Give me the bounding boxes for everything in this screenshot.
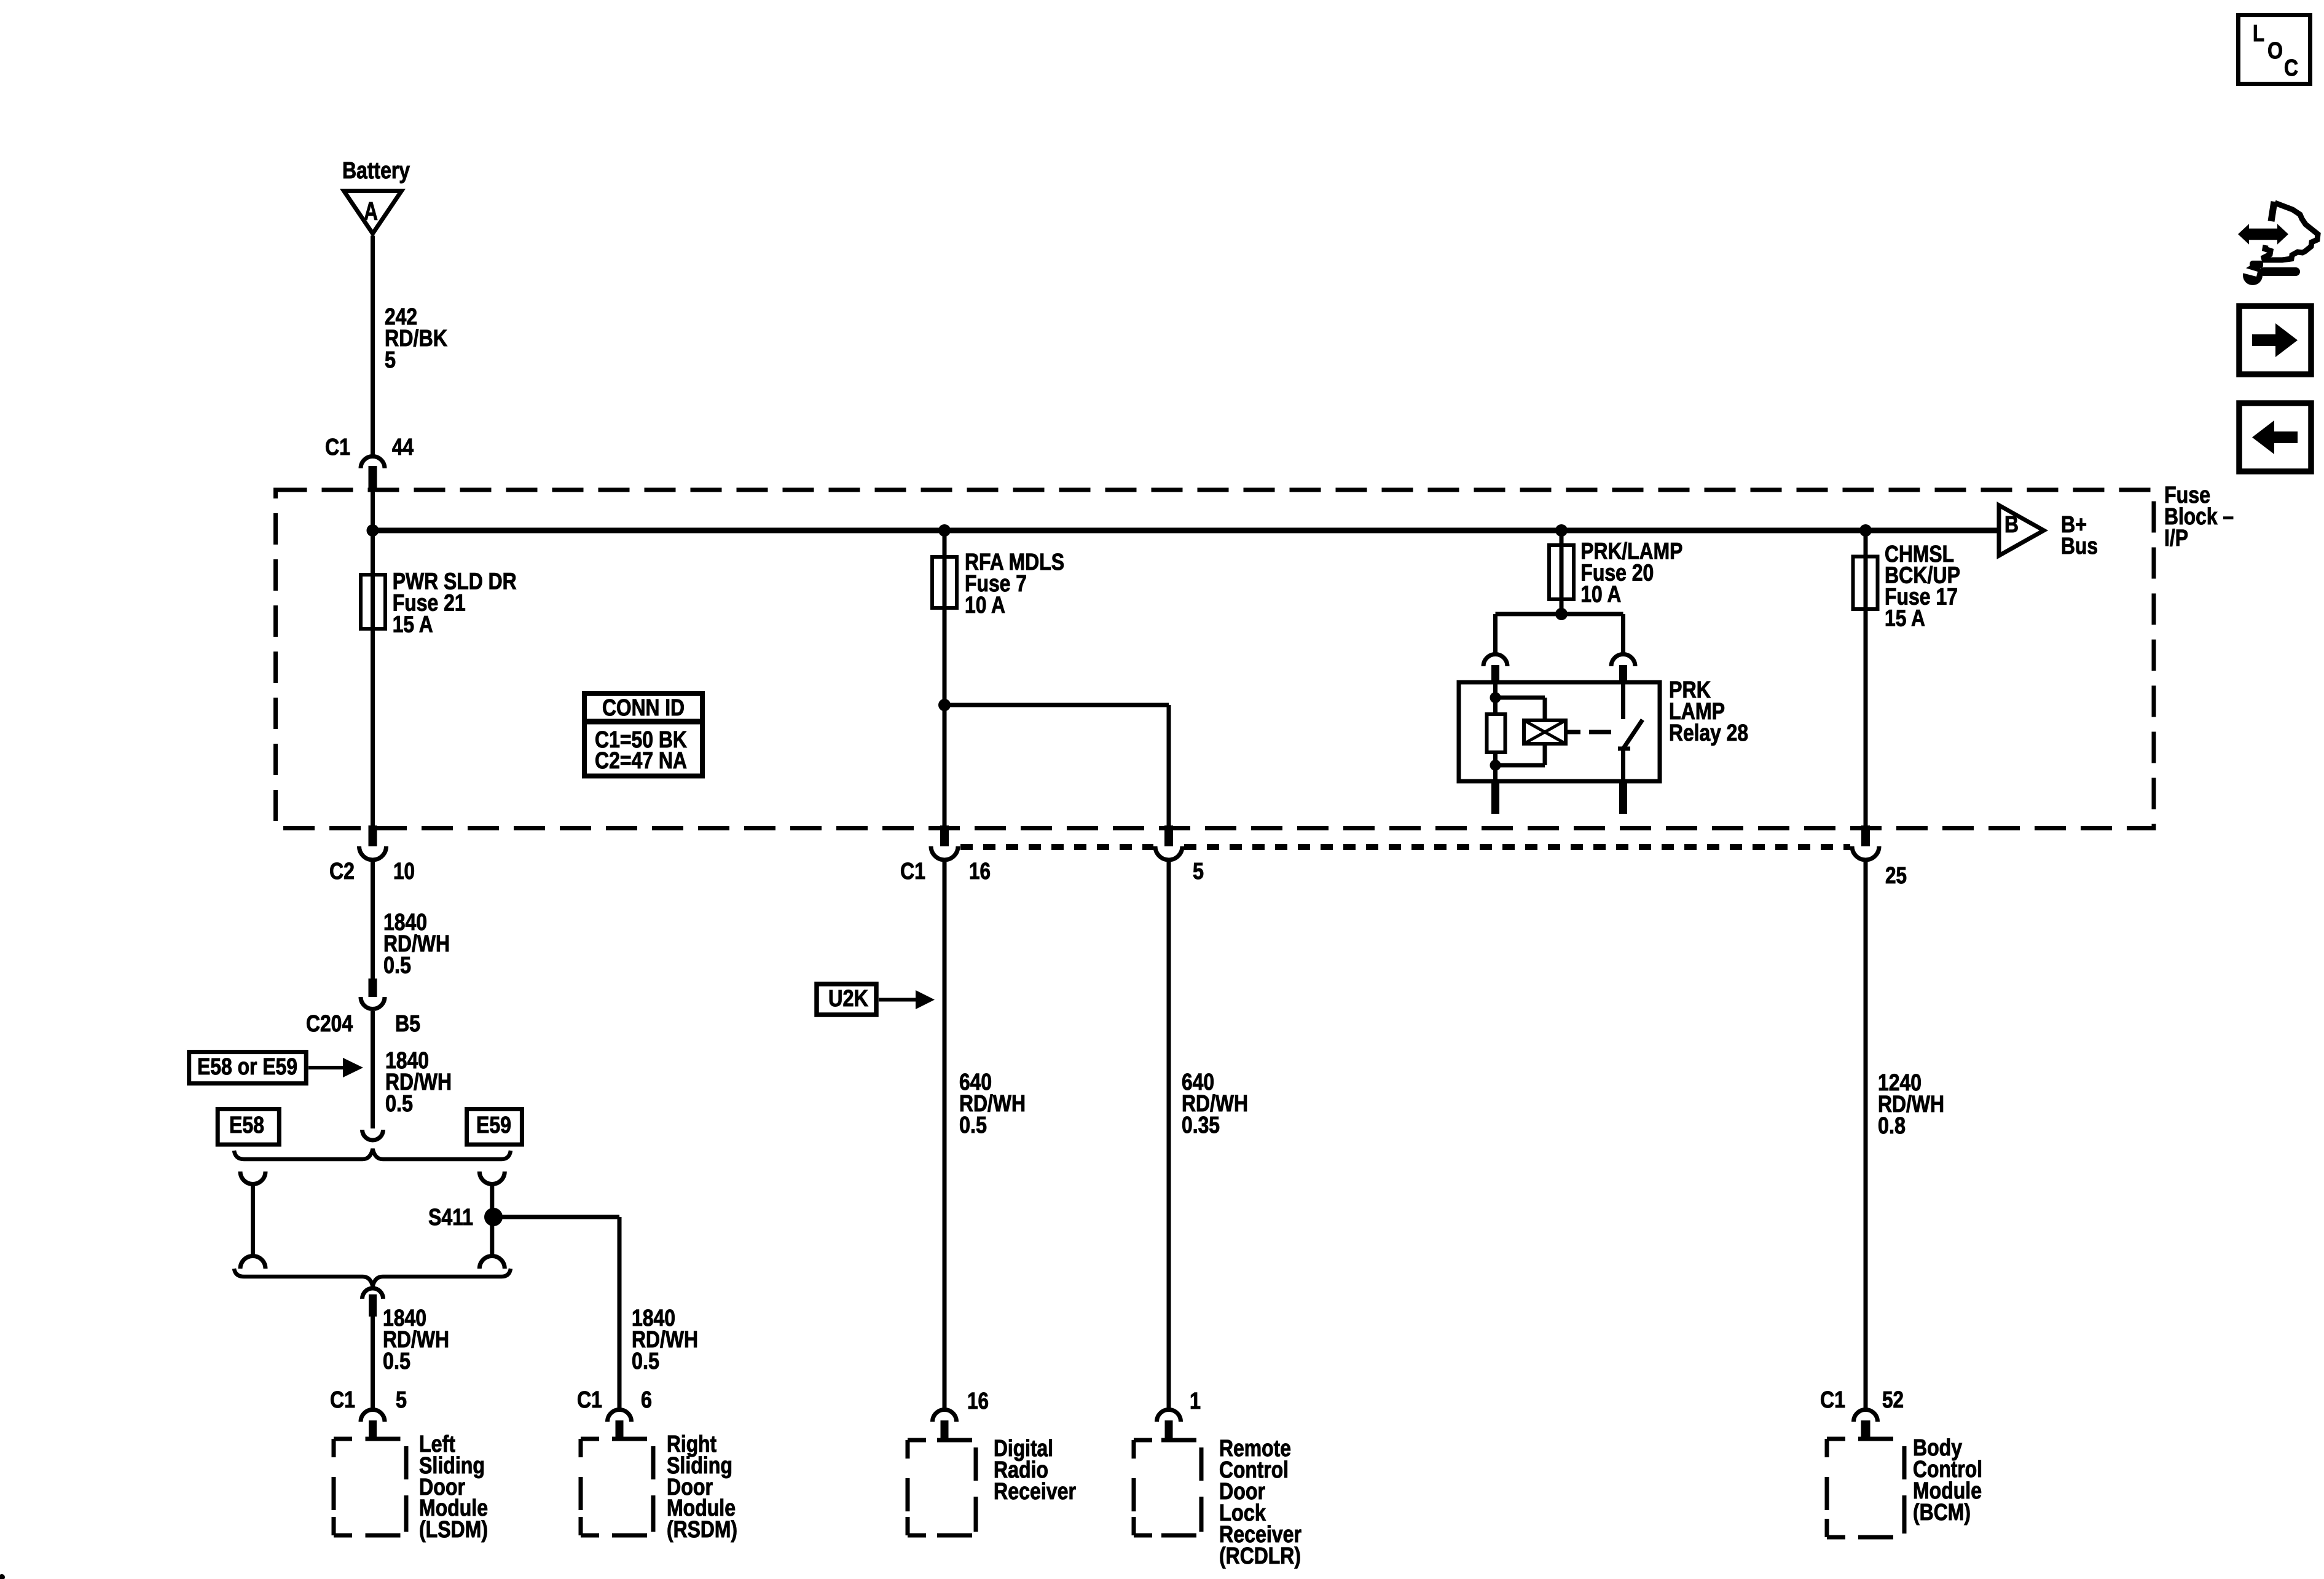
svg-text:E58: E58	[229, 1112, 264, 1138]
callout arrow E58 or E59	[308, 1058, 363, 1077]
junction node at fuse 17	[1859, 524, 1872, 537]
svg-text:C1: C1	[900, 859, 925, 884]
svg-text:I/P: I/P	[2164, 526, 2188, 551]
wire label 640 RD/WH 0.35	[1182, 1069, 1248, 1138]
brace bottom	[234, 1269, 511, 1286]
connector C1 pin 16	[931, 825, 958, 860]
fuse 7 label	[965, 549, 1064, 618]
wire label 1240 RD/WH 0.8	[1878, 1070, 1944, 1139]
svg-text:0.5: 0.5	[383, 1349, 410, 1374]
connector C1 pin 5	[1155, 825, 1182, 860]
wire bus to fuse 7 to C1-16	[943, 530, 947, 825]
wire S411 to RSDM	[493, 1217, 619, 1408]
relay coil output pin	[1491, 781, 1499, 814]
relay linkage dashes	[1566, 730, 1611, 734]
junction node below fuse 20	[1555, 608, 1568, 620]
wire label 640 RD/WH 0.5	[959, 1069, 1026, 1138]
module DRR label	[994, 1436, 1076, 1505]
connector C204 labels	[306, 1011, 420, 1037]
wire label 1840 RD/WH 0.5 (RSDM)	[632, 1305, 698, 1374]
connector C1 pin 44 labels	[325, 435, 414, 460]
relay label PRK LAMP Relay 28	[1669, 677, 1748, 746]
svg-text:25: 25	[1885, 863, 1907, 889]
repair icon wrench	[2242, 261, 2300, 285]
svg-text:B: B	[2004, 512, 2019, 538]
svg-text:C1: C1	[1820, 1387, 1845, 1413]
svg-text:52: 52	[1882, 1387, 1904, 1413]
wire bus to fuse 17 to pin 25	[1864, 530, 1868, 825]
wire pin 5 to RCDLR	[1167, 860, 1171, 1408]
connector C2 pin 10 labels	[329, 859, 415, 884]
wire brace to LSDM	[371, 1317, 375, 1408]
svg-text:(BCM): (BCM)	[1913, 1500, 1971, 1526]
svg-text:Battery: Battery	[342, 158, 410, 184]
navigation icon arrow right	[2239, 306, 2311, 374]
callout arrow U2K	[879, 990, 935, 1009]
svg-text:1: 1	[1190, 1388, 1201, 1414]
connector C1 pin 6 at RSDM	[608, 1410, 632, 1439]
wire C204 to splice brace	[371, 1011, 375, 1128]
svg-text:B5: B5	[395, 1011, 420, 1037]
svg-text:Relay 28: Relay 28	[1669, 720, 1748, 746]
svg-text:5: 5	[1193, 859, 1204, 884]
svg-text:16: 16	[969, 859, 991, 884]
relay K28 box	[1459, 682, 1660, 781]
relay coil feed wire	[1493, 683, 1498, 714]
svg-text:E59: E59	[476, 1112, 511, 1138]
svg-text:10: 10	[393, 859, 415, 884]
wire C2-10 to C204	[371, 860, 375, 979]
relay switch output pin	[1619, 781, 1627, 814]
svg-text:5: 5	[396, 1387, 407, 1413]
wire bus to fuse 21 to C2-10	[371, 490, 375, 825]
svg-text:E58 or E59: E58 or E59	[197, 1054, 297, 1080]
connector pin 16 at DRR	[933, 1410, 957, 1439]
wire pin 25 to BCM	[1864, 860, 1868, 1408]
connector C1 pin 25 label	[1885, 863, 1907, 889]
connector C1 pin 16 labels	[900, 859, 991, 884]
B+ Bus label	[2061, 512, 2098, 559]
relay switch contact wire	[1621, 683, 1625, 719]
B+ bus wire	[373, 528, 2000, 534]
pigtail connector below brace	[363, 1288, 383, 1317]
wire label 1840 RD/WH 0.5 (LSDM)	[383, 1305, 449, 1374]
fuse F20 PRK/LAMP	[1549, 545, 1574, 599]
module BCM label	[1913, 1435, 1982, 1526]
connector C1 pin 5 labels at LSDM	[330, 1387, 407, 1413]
svg-text:U2K: U2K	[828, 986, 868, 1012]
pigtail connector above brace	[363, 1130, 383, 1140]
svg-text:16: 16	[967, 1388, 989, 1414]
svg-text:10 A: 10 A	[1580, 581, 1621, 607]
navigation icon arrow left	[2239, 403, 2311, 471]
junction node branch to pin 5	[938, 699, 951, 711]
connector C1 pin 5 at LSDM	[361, 1410, 385, 1439]
svg-text:6: 6	[641, 1387, 652, 1413]
wire label 1840 RD/WH 0.5 (lower)	[385, 1048, 452, 1117]
fuse block label Fuse Block - I/P	[2164, 482, 2234, 551]
connector C1 pin 25	[1852, 825, 1879, 860]
svg-text:0.8: 0.8	[1878, 1113, 1906, 1139]
wire branch to pin 5	[944, 705, 1169, 825]
svg-text:C1: C1	[577, 1387, 602, 1413]
svg-text:44: 44	[392, 435, 414, 460]
svg-text:CONN ID: CONN ID	[602, 695, 685, 721]
splice S411 node	[484, 1208, 503, 1226]
CONN ID table box	[584, 693, 702, 776]
connector C1 pin 5 label	[1193, 859, 1204, 884]
junction node at fuse 7	[938, 524, 951, 537]
svg-text:C2=47 NA: C2=47 NA	[595, 748, 687, 774]
fuse 21 label	[393, 569, 517, 637]
module BCM box	[1827, 1439, 1904, 1537]
connector C204 pin B5	[361, 979, 385, 1009]
svg-text:C204: C204	[306, 1011, 353, 1037]
connector C1 dotted line	[960, 844, 1850, 850]
svg-text:(RSDM): (RSDM)	[667, 1517, 737, 1543]
wire battery to C1-44	[371, 236, 375, 459]
connector box E58	[218, 1109, 279, 1145]
svg-text:0.5: 0.5	[383, 953, 411, 979]
module DRR box	[908, 1440, 976, 1535]
LOC legend box	[2239, 15, 2310, 84]
connector C1 pin 52 labels at BCM	[1820, 1387, 1904, 1413]
connector C1-44	[361, 457, 385, 490]
svg-text:Bus: Bus	[2061, 534, 2098, 559]
splice S411 label	[428, 1205, 473, 1231]
wire fuse 20 to relay coil pin	[1496, 614, 1562, 653]
svg-text:0.5: 0.5	[632, 1349, 659, 1374]
junction node at fuse 21	[367, 524, 379, 537]
callout box U2K	[817, 984, 876, 1015]
connector box E59	[467, 1109, 522, 1145]
page corner mark	[0, 1574, 5, 1579]
wire label 242 RD/BK 5	[385, 304, 447, 373]
svg-text:(RCDLR): (RCDLR)	[1219, 1543, 1301, 1569]
svg-text:15 A: 15 A	[393, 612, 433, 637]
svg-text:C2: C2	[329, 859, 355, 884]
fuse F17 CHMSL BCK/UP	[1853, 557, 1878, 610]
wire C1-16 to DRR	[943, 860, 947, 1408]
power symbol B (B+ bus arrow)	[1999, 505, 2044, 556]
fuse F21 PWR SLD DR	[361, 575, 385, 629]
connector C1 pin 6 labels at RSDM	[577, 1387, 652, 1413]
wire fuse 20 to relay switch pin	[1561, 614, 1623, 653]
module RCDLR box	[1134, 1440, 1201, 1535]
CONN ID header	[602, 695, 685, 721]
connector pin 16 label at DRR	[967, 1388, 989, 1414]
svg-text:15 A: 15 A	[1885, 606, 1925, 632]
junction node at fuse 20	[1555, 524, 1568, 537]
connector C2 pin 10	[359, 825, 387, 860]
svg-text:C1: C1	[325, 435, 350, 460]
wire bus to fuse 20	[1560, 530, 1564, 614]
splice bus E59 side	[479, 1171, 504, 1269]
module LSDM label	[419, 1431, 488, 1543]
svg-text:C1: C1	[330, 1387, 355, 1413]
splice bus E58 side	[240, 1171, 265, 1269]
CONN ID entries	[595, 727, 687, 774]
relay resistor bottom wire	[1493, 752, 1498, 781]
relay switch pin connector	[1611, 655, 1635, 684]
relay coil box with X	[1524, 720, 1566, 744]
svg-text:(LSDM): (LSDM)	[419, 1517, 488, 1543]
fuse F7 RFA MDLS	[932, 557, 957, 608]
svg-text:A: A	[364, 197, 378, 226]
connector C1 pin 52 at BCM	[1854, 1410, 1878, 1439]
relay coil bottom node	[1490, 760, 1501, 771]
svg-text:Receiver: Receiver	[994, 1479, 1076, 1505]
relay switch blade	[1618, 720, 1643, 781]
power symbol A (battery triangle)	[344, 191, 402, 234]
callout box E58 or E59	[189, 1052, 307, 1084]
relay coil parallel branch wire	[1496, 698, 1545, 765]
svg-text:10 A: 10 A	[965, 593, 1005, 618]
svg-text:0.35: 0.35	[1182, 1112, 1220, 1138]
svg-text:C: C	[2284, 55, 2298, 81]
repair icon double arrow	[2238, 224, 2288, 244]
connector pin 1 label at RCDLR	[1190, 1388, 1201, 1414]
connector pin 1 at RCDLR	[1157, 1410, 1181, 1439]
wire label 1840 RD/WH 0.5 (upper)	[383, 910, 450, 979]
fuse block I/P dashed box	[276, 490, 2154, 829]
fuse 17 label	[1885, 541, 1960, 632]
svg-text:S411: S411	[428, 1205, 473, 1231]
svg-text:5: 5	[385, 347, 396, 373]
svg-text:0.5: 0.5	[385, 1091, 413, 1117]
resistor in relay	[1487, 714, 1505, 752]
svg-text:0.5: 0.5	[959, 1112, 987, 1138]
svg-text:L: L	[2253, 21, 2264, 47]
module RSDM box	[581, 1439, 653, 1535]
repair icon connector outline	[2264, 202, 2318, 260]
module LSDM box	[334, 1439, 406, 1535]
battery feed label	[342, 158, 410, 184]
module RCDLR label	[1219, 1436, 1301, 1569]
relay coil pin connector	[1483, 655, 1507, 684]
relay coil top node	[1490, 692, 1501, 703]
fuse 20 label	[1580, 539, 1682, 608]
brace top	[234, 1149, 511, 1159]
module RSDM label	[667, 1431, 737, 1543]
svg-text:O: O	[2267, 38, 2283, 64]
